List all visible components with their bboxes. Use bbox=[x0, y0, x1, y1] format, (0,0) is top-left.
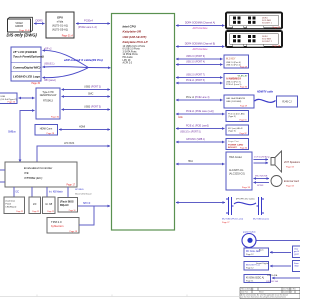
svg-text:ADH interface: ADH interface bbox=[192, 48, 209, 51]
svg-text:(PCIE Lane 1-4): (PCIE Lane 1-4) bbox=[78, 25, 97, 29]
smart battery block U12 bbox=[293, 261, 305, 272]
HDA codec U10 bbox=[226, 152, 252, 190]
Embedded Controller U5 bbox=[5, 162, 77, 187]
svg-text:DDR5: DDR5 bbox=[35, 18, 43, 22]
svg-text:External Jack: External Jack bbox=[284, 180, 300, 183]
svg-text:Page 34: Page 34 bbox=[240, 148, 247, 150]
M.2 WWAN slot J12 bbox=[226, 125, 249, 135]
svg-text:8M)+EC: 8M)+EC bbox=[60, 204, 69, 207]
PCIe slot J11 bbox=[226, 111, 249, 122]
M.2 SSD connector J16 bbox=[253, 197, 269, 221]
svg-text:M.2 SSD (PCIe Lane): M.2 SSD (PCIe Lane) bbox=[222, 219, 243, 221]
wire PCH to WLAN usb2 bbox=[176, 77, 223, 79]
wire codec to jack SPDIF bbox=[254, 182, 270, 184]
wire eDP bundle curve 3 bbox=[43, 68, 89, 78]
svg-text:DDR4 SODIMM (Channel A): DDR4 SODIMM (Channel A) bbox=[185, 21, 215, 24]
svg-text:Kabylake-UR: Kabylake-UR bbox=[123, 30, 142, 34]
DC core jack J17 bbox=[244, 248, 269, 257]
svg-text:GBE (10/100M): GBE (10/100M) bbox=[226, 101, 241, 103]
svg-text:USB (E.1): USB (E.1) bbox=[44, 64, 55, 66]
svg-text:MIC IN/LINE: MIC IN/LINE bbox=[255, 175, 268, 177]
svg-text:Page 27: Page 27 bbox=[273, 27, 281, 29]
svg-text:LED/Board: LED/Board bbox=[6, 206, 17, 209]
battery connector J18 bbox=[244, 262, 269, 271]
svg-text:eDP x2: eDP x2 bbox=[44, 49, 52, 51]
svg-text:TPM 2.0: TPM 2.0 bbox=[51, 220, 62, 224]
wire PCH to M.2 KEY usb3 bbox=[176, 64, 223, 66]
svg-text:Fixed: Fixed bbox=[6, 204, 12, 206]
wire PCH to PCIe slot bbox=[176, 113, 225, 115]
svg-text:(Type II): (Type II) bbox=[228, 116, 236, 118]
RJ45 connector J10 bbox=[277, 96, 298, 107]
svg-text:Page 30: Page 30 bbox=[240, 87, 247, 89]
wire codec to jack MIC bbox=[254, 178, 270, 180]
wire LPC bus EC to PCH bbox=[37, 146, 110, 162]
LCD panel block J3 bbox=[11, 47, 44, 85]
svg-text:eDP overall X cable(4S Pin): eDP overall X cable(4S Pin) bbox=[64, 58, 103, 62]
svg-text:Page 26: Page 26 bbox=[8, 102, 16, 104]
WLAN+BT module U8 bbox=[224, 74, 249, 89]
USB hub / Type-C controller U4 bbox=[36, 88, 60, 119]
svg-text:Page 11: Page 11 bbox=[246, 280, 254, 282]
svg-text:ACC: ACC bbox=[259, 248, 264, 251]
svg-text:M.2 SSD (Lane): M.2 SSD (Lane) bbox=[253, 219, 269, 221]
svg-text:HDA: HDA bbox=[188, 160, 193, 163]
svg-text:PCIE x1 (PORT 5): PCIE x1 (PORT 5) bbox=[186, 80, 205, 82]
title block bbox=[240, 288, 300, 299]
svg-text:USB3 (PORT 3): USB3 (PORT 3) bbox=[84, 85, 101, 88]
svg-text:PCIE x1 (PCIE Lane3): PCIE x1 (PCIE Lane3) bbox=[186, 126, 209, 128]
svg-text:Page 32: Page 32 bbox=[239, 133, 246, 135]
TP connector J7 bbox=[29, 197, 41, 214]
svg-text:are the them themselves this a: are the them themselves this all rights … bbox=[241, 296, 286, 299]
svg-text:I2C: I2C bbox=[33, 204, 37, 206]
svg-text:BOULE?: BOULE? bbox=[228, 147, 238, 149]
wire EC to LED board bbox=[13, 187, 15, 197]
svg-text:Finger Print: Finger Print bbox=[228, 140, 239, 143]
svg-text:t Batt: t Batt bbox=[294, 265, 299, 268]
svg-text:PCIEx4: PCIEx4 bbox=[84, 18, 93, 22]
USB Type-C connector J4 bbox=[0, 93, 17, 104]
wire LAN cable wavy bbox=[255, 99, 276, 102]
audio jack J14 bbox=[271, 176, 282, 187]
svg-text:Page 17: Page 17 bbox=[66, 185, 75, 187]
svg-text:RJ45 CJ: RJ45 CJ bbox=[282, 101, 292, 104]
svg-text:(FFC/FPC M.2 Cable): (FFC/FPC M.2 Cable) bbox=[236, 199, 255, 201]
svg-text:(Camera): (Camera) bbox=[6, 200, 16, 203]
wire hub USB3 port3 bbox=[62, 89, 111, 91]
DDR4 SODIMM socket J1 bbox=[226, 13, 282, 30]
svg-text:IT8586E (EC): IT8586E (EC) bbox=[24, 176, 42, 180]
svg-text:19V/65C 4A: 19V/65C 4A bbox=[266, 280, 278, 283]
svg-text:SMBus: SMBus bbox=[8, 131, 17, 134]
svg-text:LAN GbE/PEANTM: LAN GbE/PEANTM bbox=[226, 97, 245, 100]
power button SW1 bbox=[242, 230, 256, 247]
wire EC left stub 1 bbox=[0, 169, 5, 171]
wire SPI BIOS to PCH bbox=[78, 205, 110, 207]
TPM U7 bbox=[47, 218, 79, 234]
wire EC to Int KB bbox=[46, 187, 48, 197]
svg-text:I2C: I2C bbox=[16, 192, 20, 194]
svg-text:Int. KB Matrix: Int. KB Matrix bbox=[49, 190, 64, 193]
svg-text:ger B: ger B bbox=[294, 251, 299, 253]
svg-text:SPI I/F: SPI I/F bbox=[83, 202, 91, 205]
svg-text:USB3 (PORT 5): USB3 (PORT 5) bbox=[84, 105, 101, 108]
svg-text:Touch Panel(Optional): Touch Panel(Optional) bbox=[13, 55, 44, 59]
wire USB-C to hub bbox=[19, 97, 35, 99]
svg-text:Page 22: Page 22 bbox=[32, 211, 39, 213]
svg-text:Sheet: Sheet bbox=[259, 291, 264, 294]
svg-text:byNuvoton: byNuvoton bbox=[51, 224, 64, 228]
svg-text:Page 31: Page 31 bbox=[239, 119, 246, 121]
svg-text:Page 28: Page 28 bbox=[273, 46, 281, 48]
svg-text:Intel CPU: Intel CPU bbox=[123, 24, 137, 28]
svg-text:USB 2.0 (Port 6): USB 2.0 (Port 6) bbox=[226, 61, 241, 64]
svg-text:USB 3.0 (Port 4): USB 3.0 (Port 4) bbox=[226, 64, 241, 67]
wire PCH to fingerprint bbox=[176, 141, 225, 143]
svg-text:Page 12: Page 12 bbox=[246, 254, 254, 256]
svg-text:(N17S-G5-A1): (N17S-G5-A1) bbox=[52, 29, 68, 32]
wire PCH to M.2 KEY usb2 bbox=[176, 58, 223, 60]
wire HDMI to PCH bbox=[59, 129, 110, 131]
svg-text:(N17S-G1-A1): (N17S-G1-A1) bbox=[52, 25, 68, 28]
svg-text:HDMI Conn: HDMI Conn bbox=[40, 128, 53, 131]
wire charger to DC jack bbox=[270, 251, 291, 253]
svg-text:ACPI 2.0: ACPI 2.0 bbox=[123, 62, 133, 65]
svg-text:PCIE x1 (PCIE Lane (1+2)): PCIE x1 (PCIE Lane (1+2)) bbox=[186, 111, 214, 113]
svg-text:SOCKET 2: SOCKET 2 bbox=[262, 41, 273, 43]
svg-text:45 65W (65DC A): 45 65W (65DC A) bbox=[246, 276, 264, 279]
wire EC left stub 2 bbox=[0, 181, 5, 183]
wire PCH to LAN pcie bbox=[176, 99, 223, 101]
HDMI connector J5 bbox=[35, 125, 58, 136]
svg-text:Page 18: Page 18 bbox=[70, 231, 78, 233]
svg-text:HDMI/TV cable: HDMI/TV cable bbox=[257, 92, 274, 94]
charger block U11 bbox=[293, 246, 305, 258]
wire PCH-DIMM1 DDR channel A bbox=[176, 25, 225, 27]
wire PCH to WWAN bbox=[176, 128, 225, 130]
GPU U1 bbox=[46, 12, 74, 38]
svg-text:GEN2/HDLS-IW: GEN2/HDLS-IW bbox=[40, 95, 57, 97]
DDR4 SODIMM socket J2 bbox=[226, 31, 282, 48]
svg-text:Embedded Controller: Embedded Controller bbox=[24, 166, 53, 170]
VRAM module U2 (3D stacked box) bbox=[8, 17, 33, 32]
svg-text:Page 28: Page 28 bbox=[47, 133, 55, 135]
svg-text:M.2 KEY: M.2 KEY bbox=[226, 57, 236, 60]
svg-text:Page 33: Page 33 bbox=[242, 187, 251, 189]
svg-text:nVdia: nVdia bbox=[57, 21, 64, 24]
svg-text:USB 3.0 (PORT 4): USB 3.0 (PORT 4) bbox=[186, 62, 205, 64]
svg-text:GPU: GPU bbox=[57, 16, 63, 20]
wire PCH-DIMM2 DDR channel B bbox=[176, 46, 225, 48]
wire hub SMC bbox=[62, 96, 111, 98]
svg-text:CBI (panel): CBI (panel) bbox=[44, 80, 56, 82]
svg-text:DDR4 SODIMM (Channel B): DDR4 SODIMM (Channel B) bbox=[185, 42, 216, 45]
Power board / LED block J6 bbox=[4, 197, 25, 214]
svg-text:power button: power button bbox=[243, 230, 256, 233]
wire eDP combined to PCH bbox=[88, 67, 111, 69]
svg-text:USB 2.0 (Port 7): USB 2.0 (Port 7) bbox=[226, 81, 241, 84]
svg-text:HDA Codec: HDA Codec bbox=[229, 156, 243, 159]
svg-text:Page 30: Page 30 bbox=[31, 83, 40, 85]
svg-text:SOCKET 1: SOCKET 1 bbox=[262, 22, 273, 24]
svg-text:Page 33: Page 33 bbox=[286, 186, 295, 188]
wire hub USB3 port5 bbox=[62, 109, 111, 111]
sheet frame bottom border bbox=[0, 295, 240, 297]
wire EC to TP bbox=[31, 187, 33, 197]
svg-text:(Type II): (Type II) bbox=[228, 131, 236, 133]
svg-text:Page 12: Page 12 bbox=[246, 268, 254, 270]
svg-text:SPDIF: SPDIF bbox=[257, 185, 264, 187]
flash BIOS U6 bbox=[58, 198, 78, 213]
svg-text:DIS only (DWG): DIS only (DWG) bbox=[7, 33, 38, 38]
svg-text:Doc Number Rev: Doc Number Rev bbox=[283, 288, 296, 291]
svg-text:GDDR5: GDDR5 bbox=[15, 26, 24, 28]
svg-text:Page 16: Page 16 bbox=[69, 210, 76, 212]
svg-text:USB 2/3.x (PORT 5): USB 2/3.x (PORT 5) bbox=[180, 131, 201, 133]
wire VRAM-GPU DDR bus bbox=[34, 23, 45, 25]
wire codec to speakers bbox=[254, 159, 269, 161]
svg-text:RTS5413: RTS5413 bbox=[43, 101, 53, 103]
svg-text:Kabylake PCH-LP: Kabylake PCH-LP bbox=[123, 40, 148, 44]
svg-text:VRAM: VRAM bbox=[15, 22, 22, 25]
svg-text:(ALC3253-CG): (ALC3253-CG) bbox=[229, 173, 245, 176]
M.2 SSD connector J15 bbox=[222, 197, 243, 224]
svg-text:Page 31-A: Page 31-A bbox=[62, 35, 74, 38]
wire EC to BIOS flash bbox=[67, 187, 69, 197]
internal keyboard J8 bbox=[43, 197, 56, 214]
svg-text:POWER CARD: POWER CARD bbox=[228, 143, 244, 146]
svg-text:Page 27: Page 27 bbox=[222, 222, 230, 224]
svg-text:HDMI: HDMI bbox=[79, 125, 85, 128]
svg-text:USB: USB bbox=[1, 96, 6, 98]
svg-text:Page 29: Page 29 bbox=[240, 106, 247, 108]
svg-text:Page 22: Page 22 bbox=[16, 211, 23, 213]
svg-text:Camera/Digital MIC): Camera/Digital MIC) bbox=[13, 66, 40, 70]
LAN controller U9 bbox=[224, 95, 254, 108]
wire battery bbox=[270, 265, 291, 267]
svg-text:PCIe 4x (for LAN): PCIe 4x (for LAN) bbox=[228, 112, 245, 115]
wire eDP bundle curve 2 bbox=[43, 66, 89, 69]
svg-text:LPC BUS: LPC BUS bbox=[64, 142, 75, 145]
svg-text:Smar: Smar bbox=[294, 263, 299, 265]
svg-text:Smart Digital: Smart Digital bbox=[256, 262, 269, 265]
svg-text:Page 30: Page 30 bbox=[51, 117, 60, 119]
M.2 KEY slot J9 bbox=[224, 55, 249, 68]
svg-text:Type-C HD: Type-C HD bbox=[42, 92, 54, 94]
wire PCH to SSD SATA bbox=[176, 202, 225, 204]
svg-text:ADH interface: ADH interface bbox=[192, 27, 209, 30]
svg-text:GPIO/I2C (SMB 1): GPIO/I2C (SMB 1) bbox=[186, 139, 205, 141]
svg-text:M.2 (are) HE-4I: M.2 (are) HE-4I bbox=[228, 127, 243, 130]
svg-text:SMC: SMC bbox=[88, 92, 94, 95]
AC adapter J19 bbox=[244, 275, 271, 283]
wire GPU-PCH PCIE x4 bbox=[76, 23, 110, 25]
svg-text:Char: Char bbox=[294, 249, 299, 251]
wire PCH to WLAN pcie bbox=[176, 82, 223, 84]
wire eDP bundle curve 1 bbox=[43, 50, 89, 67]
svg-text:15" LCD (FHD/ED: 15" LCD (FHD/ED bbox=[13, 50, 37, 54]
svg-text:2CH Speakers: 2CH Speakers bbox=[283, 161, 300, 164]
Intel CPU / PCH block U3 bbox=[112, 14, 175, 231]
svg-text:GbE: GbE bbox=[178, 117, 183, 119]
svg-text:Page 22: Page 22 bbox=[47, 211, 54, 213]
wire adapter DC in bbox=[272, 277, 300, 279]
svg-text:2CH 2x2W Amp: 2CH 2x2W Amp bbox=[254, 156, 270, 159]
svg-text:USB 2.0 (PORT 7): USB 2.0 (PORT 7) bbox=[186, 75, 205, 77]
svg-text:LVDS/HD LED Logo: LVDS/HD LED Logo bbox=[13, 75, 40, 79]
svg-text:USB 2.0 (PORT 6): USB 2.0 (PORT 6) bbox=[186, 56, 205, 58]
svg-text:Date Tue: Date Tue bbox=[241, 291, 248, 294]
svg-text:SPI BUS: SPI BUS bbox=[75, 189, 84, 191]
svg-text:Custom 1 of: Custom 1 of bbox=[283, 291, 293, 294]
svg-text:AI NMB/MIC4: AI NMB/MIC4 bbox=[226, 77, 242, 80]
svg-text:Share (Interface): Share (Interface) bbox=[75, 193, 92, 196]
svg-text:(3.0 Full Type-C): (3.0 Full Type-C) bbox=[1, 99, 18, 101]
wire TPM to SPI bus bbox=[79, 206, 94, 225]
wire power button bbox=[257, 239, 301, 241]
svg-text:Title (schematic): Title (schematic) bbox=[241, 288, 254, 291]
wire SMBus EC to hub bbox=[20, 111, 35, 163]
svg-text:Page 29: Page 29 bbox=[240, 66, 247, 68]
speaker LS1 bbox=[271, 151, 282, 172]
wire PCH to codec HDA bbox=[176, 163, 225, 165]
svg-text:Int. KB: Int. KB bbox=[45, 203, 52, 206]
svg-text:19V/3.42A: 19V/3.42A bbox=[267, 274, 278, 277]
fingerprint board J13 bbox=[226, 139, 249, 150]
svg-text:U3E (UM AE INT): U3E (UM AE INT) bbox=[123, 35, 147, 39]
svg-text:PCIe x1 (PCIE Lane 4): PCIe x1 (PCIE Lane 4) bbox=[186, 97, 210, 99]
svg-text:Page 33: Page 33 bbox=[286, 167, 295, 169]
wire SSD FFC cable wavy bbox=[234, 202, 256, 204]
